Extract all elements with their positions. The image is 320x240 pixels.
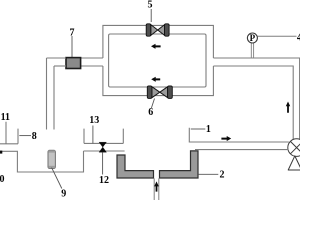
flow arrow (right downpipe, pointing up) — [286, 102, 290, 113]
wire left downpipe (outer wall) — [46, 58, 48, 130]
gauge stem (left wall) — [250, 43, 252, 58]
component 9 leader — [52, 168, 62, 189]
container 2 leader — [199, 173, 219, 175]
valve 6 leader — [151, 99, 154, 109]
blower/pump (circle with X) — [288, 139, 306, 157]
svg-text:7: 7 — [70, 28, 75, 39]
svg-text:5: 5 — [148, 0, 153, 11]
svg-text:13: 13 — [89, 115, 99, 126]
wire component 7 to left elbow (bottom wall) — [54, 65, 66, 67]
node stub at left edge (black) — [0, 151, 2, 154]
wire inlet pipe below container (left wall) — [153, 178, 155, 200]
port 13 leader — [92, 126, 94, 144]
flow arrow (upper branch, pointing left) — [151, 44, 161, 49]
svg-text:1: 1 — [206, 124, 211, 135]
port 11 stub — [5, 122, 7, 144]
svg-text:2: 2 — [220, 170, 225, 181]
valve 12 leader — [102, 152, 104, 174]
wire gauge to label 4 — [258, 35, 297, 37]
blower stand triangle — [288, 156, 301, 170]
wire loop outer lower (left edge below gap, bottom run, right edge below gap) — [103, 66, 213, 96]
wire duct (bottom wall, dip under open chamber) — [0, 151, 84, 172]
valve 5 leader — [150, 9, 152, 22]
svg-text:8: 8 — [32, 131, 37, 142]
wire loop outer upper (left edge above gap, top run, right edge above gap) — [103, 25, 213, 58]
svg-text:12: 12 — [99, 175, 109, 186]
component 7 (inline box) — [66, 58, 81, 69]
container 2 left bracket — [117, 155, 154, 178]
svg-text:9: 9 — [61, 188, 66, 199]
wire bottom pipe (bottom wall) — [195, 149, 288, 151]
wire duct from left edge (top wall with port 8 upturn) — [0, 129, 18, 144]
flow arrow (lower branch, pointing left) — [151, 77, 160, 82]
wire from loop left to component 7 (top wall) — [81, 57, 103, 59]
svg-text:P: P — [250, 33, 256, 43]
wire component 7 to left elbow (top wall) — [47, 57, 67, 59]
component 7 leader — [71, 36, 73, 58]
valve 5 — [146, 24, 169, 36]
svg-text:6: 6 — [148, 107, 153, 118]
svg-text:4: 4 — [297, 33, 300, 44]
wire valve-12 run (top wall with upturned ends) — [84, 129, 123, 144]
wire from loop left to component 7 (bottom wall) — [81, 65, 103, 67]
gauge stem (right wall) — [253, 43, 255, 58]
port 1 leader — [191, 128, 206, 130]
valve 6 — [147, 86, 172, 99]
pressure gauge P — [247, 33, 257, 43]
valve 12 (vertical bowtie) — [99, 142, 106, 152]
port 8 leader — [19, 135, 31, 137]
wire valve-12 run (bottom wall onto container) — [84, 150, 125, 152]
wire bottom pipe blower to port 1 (top wall with upturned end) — [189, 128, 288, 142]
svg-text:11: 11 — [1, 112, 10, 123]
wire loop right to right downpipe (bottom wall) — [213, 66, 293, 140]
container 2 right bracket — [160, 151, 199, 178]
flow arrow (inlet, pointing up) — [154, 181, 159, 191]
wire loop right to gauge tee and right edge (top wall) — [213, 58, 299, 140]
component 9 (sensor in duct) — [48, 150, 55, 168]
wire inlet pipe below container (right wall) — [158, 178, 160, 200]
wire loop inner rectangle — [109, 34, 206, 87]
svg-text:0: 0 — [0, 174, 5, 185]
flow arrow (bottom pipe, pointing right) — [221, 136, 231, 141]
wire left downpipe (inner wall) — [53, 66, 55, 130]
